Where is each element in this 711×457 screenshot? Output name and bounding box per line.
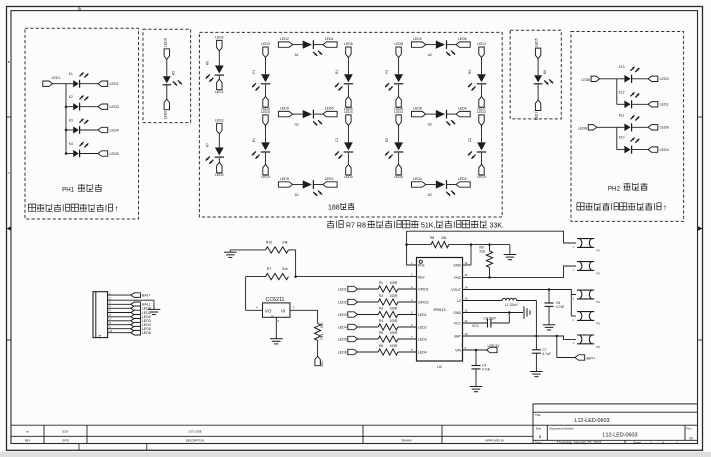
- svg-text:K10: K10: [619, 136, 625, 140]
- svg-text:A2: A2: [428, 53, 432, 57]
- LED K6: [206, 51, 224, 82]
- port LED2 (PH2 row 1): [648, 76, 669, 81]
- svg-text:188: 188: [328, 205, 340, 212]
- svg-text:LED4: LED4: [477, 42, 486, 46]
- svg-text:L12-LED-0603: L12-LED-0603: [603, 432, 638, 438]
- svg-text:R3: R3: [379, 307, 383, 311]
- svg-text:10: 10: [465, 332, 469, 336]
- svg-text:VI: VI: [281, 309, 285, 314]
- connector coil P6: [573, 335, 601, 349]
- wire GND (U2 pin12): [463, 311, 524, 314]
- svg-text:K2: K2: [69, 95, 73, 99]
- title block: [533, 404, 698, 445]
- svg-text:VOUT: VOUT: [451, 288, 462, 292]
- resistor R9 51K: [480, 245, 493, 279]
- connector coil P2: [573, 239, 601, 253]
- svg-text:DATE: DATE: [62, 438, 69, 442]
- svg-text:BAT+: BAT+: [587, 356, 596, 360]
- svg-text:CC6211: CC6211: [266, 297, 285, 303]
- svg-text:PH2: PH2: [454, 276, 461, 280]
- port LED0: [344, 164, 353, 179]
- svg-text:Title: Title: [535, 413, 541, 417]
- wire LX net (U2 pin13 to L1): [463, 300, 503, 302]
- svg-text:4.7uF: 4.7uF: [543, 352, 551, 356]
- svg-text:51k: 51k: [282, 267, 288, 271]
- text PH1 direction note: [28, 204, 118, 213]
- port LED2: [477, 110, 486, 126]
- svg-text:LED4: LED4: [413, 177, 422, 181]
- svg-text:LED4: LED4: [418, 351, 427, 355]
- port LED6 (PH2 row 3): [648, 125, 669, 130]
- port LED5 (K9 top): [535, 38, 541, 58]
- port LED4: [456, 107, 470, 117]
- svg-text:LED0: LED0: [215, 173, 224, 177]
- svg-text:LED2: LED2: [215, 118, 224, 122]
- port LED8: [412, 107, 426, 117]
- svg-text:LED4: LED4: [344, 110, 353, 114]
- port LED4 (U2 input): [338, 324, 358, 329]
- port LED4: [261, 97, 270, 112]
- port LED6 (U2 input): [338, 349, 358, 354]
- svg-text:USB 5V: USB 5V: [488, 344, 501, 348]
- svg-text:R6: R6: [379, 344, 383, 348]
- svg-text:LED2: LED2: [418, 326, 427, 330]
- resistor R11 51K: [315, 321, 325, 340]
- svg-text:P1: P1: [98, 334, 102, 338]
- K5 group box (dashed): [143, 29, 191, 122]
- svg-text:100R: 100R: [390, 344, 399, 348]
- svg-text:LED2: LED2: [338, 300, 347, 304]
- svg-text:no: no: [26, 430, 29, 433]
- svg-text:GND: GND: [453, 264, 461, 268]
- ground (P1 pin2): [148, 309, 161, 314]
- LED G1: [293, 110, 323, 127]
- svg-text:PH1: PH1: [418, 264, 425, 268]
- text 188 display label: [328, 203, 354, 212]
- svg-text:F2: F2: [385, 70, 389, 74]
- port LED4: [394, 110, 403, 126]
- svg-text:R8: R8: [430, 236, 434, 240]
- svg-text:C6 22uF: C6 22uF: [484, 316, 497, 320]
- LED D2: [426, 180, 456, 197]
- port LED4: [477, 42, 486, 58]
- port LED1 (K9 bottom): [535, 100, 541, 120]
- wire P1 pin 8: [108, 321, 131, 325]
- connector coil P4: [573, 290, 601, 304]
- revision table: [11, 425, 533, 443]
- LED K1: [66, 72, 98, 88]
- port LED0: [261, 164, 270, 179]
- resistor R8 33k: [405, 236, 448, 248]
- PH2 group box (dashed): [571, 32, 684, 222]
- port LED5: [261, 110, 270, 126]
- svg-text:100R: 100R: [390, 319, 399, 323]
- svg-text:LED1: LED1: [52, 76, 61, 80]
- port LED5 (U2 input): [338, 336, 358, 341]
- svg-text:LED5: LED5: [325, 107, 334, 111]
- LED F2: [385, 58, 403, 97]
- port BAT-: [315, 356, 324, 366]
- resistor R3 100R: [358, 307, 417, 318]
- svg-text:VO: VO: [265, 309, 272, 314]
- svg-text:13: 13: [465, 296, 469, 300]
- IC U1 CC6211: [263, 297, 291, 318]
- svg-text:G1: G1: [294, 122, 299, 126]
- svg-text:PH2: PH2: [608, 185, 621, 192]
- wire CC6211 VI to R11: [290, 306, 318, 324]
- inductor L1 22uH: [502, 298, 518, 307]
- capacitor C6 22uF: [484, 313, 510, 328]
- LED K5: [163, 59, 182, 99]
- svg-text:LED1: LED1: [418, 313, 427, 317]
- svg-text:P4: P4: [597, 300, 601, 304]
- K9 group box (dashed): [510, 30, 561, 119]
- svg-text:B: B: [8, 60, 10, 64]
- svg-text:LED9: LED9: [280, 107, 289, 111]
- resistor R10 24k: [266, 240, 289, 253]
- wire VCC (U2 pin11) and label: [463, 323, 488, 328]
- wire R10 right to R7 right: [289, 250, 296, 277]
- svg-text:Document Number: Document Number: [550, 426, 574, 430]
- LED B1: [335, 58, 353, 97]
- LED A2: [426, 40, 456, 57]
- wire P1 pin 1: [108, 291, 131, 295]
- LED F1: [252, 58, 270, 97]
- svg-text:R10: R10: [266, 240, 272, 244]
- svg-text:LED5: LED5: [261, 110, 270, 114]
- svg-text:LED0: LED0: [261, 42, 270, 46]
- svg-text:LED2: LED2: [110, 82, 119, 86]
- svg-text:ECN: ECN: [63, 429, 69, 433]
- wire KEY net (R7 junction to U2 pin2): [294, 275, 416, 278]
- ground (R10 left): [224, 250, 237, 258]
- port LED7: [477, 97, 486, 112]
- svg-text:BAT-: BAT-: [320, 360, 324, 367]
- svg-text:LED8: LED8: [394, 42, 403, 46]
- svg-text:51K: 51K: [480, 250, 487, 254]
- port LED2 (U2 input): [338, 299, 358, 304]
- svg-text:REV: REV: [25, 438, 31, 442]
- connector coil P3: [573, 262, 601, 276]
- LED A1: [293, 40, 323, 57]
- svg-text:LED4: LED4: [660, 148, 669, 152]
- svg-text:LED6: LED6: [660, 126, 669, 130]
- svg-text:KEY: KEY: [418, 275, 426, 279]
- svg-text:Size: Size: [536, 426, 542, 430]
- port LED1 (U2 input): [338, 286, 358, 291]
- svg-text:BAT+: BAT+: [142, 294, 151, 298]
- port LED2 (P1 pin 5): [131, 310, 151, 315]
- svg-text:LED6: LED6: [142, 331, 151, 335]
- svg-text:DESCRIPTION: DESCRIPTION: [186, 438, 204, 442]
- port LED1 (PH2 row 2): [648, 102, 669, 107]
- port LED3 (P1 pin 7): [131, 319, 151, 324]
- svg-text:Date:: Date:: [535, 440, 542, 444]
- resistor R7 51k: [266, 267, 289, 280]
- port LED5 (PH1 row 4): [98, 151, 119, 156]
- svg-text:100R: 100R: [390, 294, 399, 298]
- svg-text:1ST CODE: 1ST CODE: [188, 429, 202, 433]
- svg-text:LED3: LED3: [418, 338, 427, 342]
- svg-text:G2: G2: [428, 122, 433, 126]
- LED D1: [293, 180, 323, 197]
- text note about R7 R8 configuration: [327, 221, 504, 230]
- port LED3 (PH1 row 2): [98, 104, 119, 109]
- svg-text:R1: R1: [379, 281, 383, 285]
- svg-text:U2: U2: [437, 365, 442, 369]
- svg-text:LED9: LED9: [280, 177, 289, 181]
- svg-text:00: 00: [689, 436, 693, 440]
- wire P1 pin 6: [108, 313, 131, 317]
- wire GND net (R8 right, U2 pin16, R9 top, ground): [449, 243, 510, 265]
- svg-text:↑: ↑: [663, 203, 667, 212]
- svg-text:GND: GND: [453, 311, 461, 315]
- port LED0: [412, 37, 426, 47]
- svg-text:LED8: LED8: [344, 42, 353, 46]
- svg-text:LED5: LED5: [338, 337, 347, 341]
- svg-text:APPROVED BY: APPROVED BY: [485, 438, 504, 442]
- svg-text:LED4: LED4: [338, 325, 347, 329]
- text PH2 direction note: [577, 203, 667, 212]
- wire BAT net (U2 pin10 to coil P6 and BAT+): [463, 335, 577, 340]
- svg-text:33k: 33k: [441, 236, 447, 240]
- ground (CC6211): [270, 339, 283, 344]
- svg-text:LED4: LED4: [163, 38, 167, 47]
- svg-text:VCC: VCC: [472, 324, 480, 328]
- svg-text:P5: P5: [597, 321, 601, 325]
- LED B2: [468, 58, 486, 97]
- port LED0: [215, 162, 224, 177]
- port LED4 (K5 top): [163, 38, 169, 59]
- svg-text:LED4: LED4: [110, 128, 119, 132]
- PH1 group box (dashed): [25, 28, 139, 219]
- port LED4 (PH2 row 4): [648, 147, 669, 152]
- port LED5: [394, 164, 403, 179]
- svg-text:51K: 51K: [320, 321, 324, 328]
- svg-text:LED0: LED0: [413, 37, 422, 41]
- svg-text:DRAWN: DRAWN: [401, 438, 411, 442]
- port LED8: [344, 42, 353, 58]
- svg-text:LED6: LED6: [338, 350, 347, 354]
- ground (C5): [543, 325, 556, 330]
- LED G2: [426, 110, 456, 127]
- LED K10: [617, 136, 648, 154]
- port USB 5V: [487, 344, 501, 353]
- port LED3 (U2 input): [338, 312, 358, 317]
- wire P1 pin2 to ground: [131, 300, 154, 309]
- port LED1: [215, 79, 224, 94]
- svg-text:Sheet: Sheet: [633, 440, 641, 444]
- LED K9: [534, 59, 553, 100]
- wire PH2 upper bus: [600, 79, 617, 105]
- port LED2: [215, 118, 224, 134]
- svg-text:K7: K7: [206, 143, 210, 147]
- svg-text:K9: K9: [543, 70, 547, 74]
- port LED8 (PH2 lower input): [578, 125, 597, 131]
- wire P1 pin 5: [108, 309, 131, 313]
- wire PH2 lower bus: [597, 127, 617, 149]
- svg-text:VIN: VIN: [455, 349, 461, 353]
- svg-text:L12-LED-0603: L12-LED-0603: [575, 418, 610, 424]
- wire PH2 net (U2 pin15 to coil P3): [463, 266, 577, 277]
- svg-text:11: 11: [465, 319, 468, 323]
- port LED6: [394, 97, 403, 112]
- svg-text:14: 14: [465, 285, 469, 289]
- port LED2: [215, 35, 224, 51]
- port LED1: [323, 177, 337, 187]
- svg-text:K1: K1: [69, 72, 73, 76]
- port LED6 (K5 bottom): [163, 99, 169, 119]
- svg-text:LED1: LED1: [535, 112, 539, 121]
- port LED6: [456, 37, 470, 47]
- port HALL (P1 pin 3): [131, 302, 151, 307]
- svg-text:R2: R2: [379, 294, 383, 298]
- svg-text:VCC: VCC: [454, 322, 462, 326]
- wire R7 left to CC6211 VO: [246, 277, 266, 311]
- svg-text:LED4: LED4: [458, 107, 467, 111]
- port LED6 (PH2 upper input): [581, 76, 599, 82]
- port LED5 (P1 pin 9): [131, 326, 151, 331]
- LED C2: [468, 125, 486, 164]
- port BAT+ (P1 pin1): [131, 293, 151, 298]
- port LED8 (P1 pin 4): [131, 306, 151, 311]
- svg-text:D1: D1: [295, 193, 299, 197]
- wire BAT+ branch: [557, 336, 575, 358]
- svg-text:100R: 100R: [390, 281, 399, 285]
- wire P1 pin 7: [108, 317, 131, 321]
- svg-text:P6: P6: [597, 345, 601, 349]
- wire R11 to BAT- port: [317, 340, 319, 356]
- svg-text:K13: K13: [619, 65, 625, 69]
- LED C1: [335, 125, 353, 164]
- port LED4: [344, 110, 353, 126]
- capacitor C7 4.7uF: [532, 336, 551, 372]
- LED K2: [65, 95, 98, 111]
- wire CC6211 ground pin: [276, 317, 279, 338]
- wire R10 left: [230, 249, 265, 251]
- svg-text:LED5: LED5: [394, 175, 403, 179]
- svg-text:16: 16: [465, 261, 469, 265]
- svg-text:100R: 100R: [390, 307, 399, 311]
- resistor R1 100R: [358, 281, 417, 292]
- LED E1: [252, 125, 270, 164]
- ground (C4): [470, 387, 483, 392]
- svg-text:C1: C1: [335, 138, 339, 142]
- port LED5: [323, 107, 337, 117]
- port LED2 (PH1 row 1): [98, 81, 119, 86]
- svg-text:K11: K11: [619, 113, 625, 117]
- svg-text:B2: B2: [468, 70, 472, 74]
- port LED6 (P1 pin 10): [131, 330, 151, 335]
- svg-text:LED6: LED6: [458, 37, 467, 41]
- svg-text:R4: R4: [379, 319, 383, 323]
- svg-text:LED4: LED4: [394, 110, 403, 114]
- svg-text:P3: P3: [597, 271, 601, 275]
- svg-text:R7: R7: [267, 267, 272, 271]
- svg-text:LED2: LED2: [660, 77, 669, 81]
- svg-text:R5: R5: [379, 331, 383, 335]
- port LED9: [278, 107, 292, 117]
- resistor R4 100R: [358, 319, 417, 330]
- svg-text:of: of: [662, 440, 665, 444]
- svg-text:B1: B1: [335, 70, 339, 74]
- wire VOUT net (U2 pin14 to coils P4 P5): [463, 288, 577, 316]
- text PH1 label: [62, 184, 102, 193]
- wire VIN net (U2 pin9): [463, 349, 487, 352]
- LED K11: [617, 113, 648, 131]
- svg-text:K12: K12: [619, 90, 625, 94]
- svg-text:IP5513: IP5513: [433, 308, 445, 312]
- svg-text:LED4: LED4: [325, 37, 334, 41]
- capacitor C5 4.7uF: [545, 290, 565, 325]
- svg-text:PH1: PH1: [62, 187, 75, 194]
- resistor R6 100R: [358, 344, 417, 355]
- svg-text:LED1: LED1: [338, 287, 347, 291]
- port LED2: [278, 37, 292, 47]
- wire L1 to BAT net: [517, 301, 537, 337]
- svg-text:100R: 100R: [390, 331, 399, 335]
- svg-text:LED2: LED2: [215, 35, 224, 39]
- svg-text:33K.: 33K.: [490, 223, 504, 230]
- svg-text:GPIO1: GPIO1: [418, 288, 429, 292]
- svg-text:A1: A1: [295, 53, 299, 57]
- LED K7: [206, 134, 224, 164]
- wire PH1 bus: [53, 84, 67, 154]
- svg-text:LED3: LED3: [110, 105, 119, 109]
- port LED9: [278, 177, 292, 187]
- LED E2: [385, 125, 403, 164]
- svg-text:K6: K6: [206, 61, 210, 65]
- svg-text:LED0: LED0: [261, 175, 270, 179]
- port LED4 (P1 pin 8): [131, 322, 151, 327]
- svg-text:LED0: LED0: [477, 175, 486, 179]
- svg-text:LED1: LED1: [660, 103, 669, 107]
- svg-text:R7 R8: R7 R8: [346, 223, 366, 230]
- svg-text:LED5: LED5: [110, 152, 119, 156]
- svg-text:LED1: LED1: [325, 177, 334, 181]
- wire P1 pin 2: [108, 296, 131, 300]
- svg-text:K4: K4: [69, 142, 73, 146]
- svg-text:12: 12: [465, 308, 469, 312]
- svg-text:LED2: LED2: [280, 37, 289, 41]
- svg-text:D2: D2: [428, 193, 432, 197]
- svg-text:LED5: LED5: [535, 38, 539, 47]
- port LED0 (P1 pin 6): [131, 315, 151, 320]
- connector P1: [93, 292, 108, 339]
- port LED0: [477, 164, 486, 179]
- svg-text:4.7uF: 4.7uF: [556, 305, 564, 309]
- svg-text:R11: R11: [320, 334, 324, 340]
- port LED1 (PH1 input): [43, 76, 61, 87]
- svg-text:Rev: Rev: [687, 426, 693, 430]
- svg-text:BAT: BAT: [454, 335, 461, 339]
- port LED0: [261, 42, 270, 58]
- wire P1 pin 3: [108, 301, 131, 305]
- capacitor C4 4.7uF: [472, 350, 491, 387]
- svg-text:LED6: LED6: [163, 111, 167, 120]
- ground (R8/R9 net): [504, 255, 517, 260]
- connector coil P5: [573, 312, 601, 326]
- svg-text:LED8: LED8: [578, 127, 587, 131]
- svg-text:LX: LX: [457, 299, 462, 303]
- port BAT+ (battery): [575, 355, 595, 361]
- svg-text:F1: F1: [252, 70, 256, 74]
- svg-text:LED8: LED8: [413, 107, 422, 111]
- svg-text:51K,: 51K,: [421, 223, 435, 230]
- svg-text:C2: C2: [468, 138, 472, 142]
- svg-text:↑: ↑: [114, 204, 118, 213]
- port LED8: [394, 42, 403, 58]
